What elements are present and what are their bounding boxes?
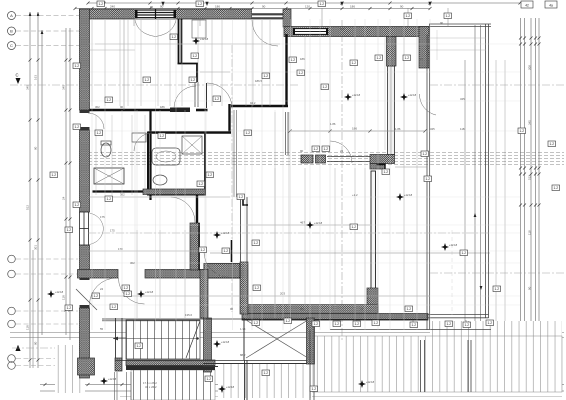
label box 6 <box>73 63 81 69</box>
label box 37 <box>199 247 207 253</box>
wall bottom edge dark <box>242 319 428 321</box>
svg-text:C: C <box>16 73 19 78</box>
terrace interior vertical <box>436 30 438 60</box>
terrace interior hline2 <box>429 49 486 51</box>
svg-text:90: 90 <box>120 105 124 109</box>
extension line v low <box>184 110 186 318</box>
left dim line E <box>69 28 71 340</box>
wall left exterior seg1 <box>80 9 90 110</box>
stair treads upper <box>126 320 200 359</box>
svg-text:345: 345 <box>26 85 30 90</box>
window top-right band <box>293 28 328 35</box>
svg-text:345: 345 <box>430 127 435 131</box>
extension line v <box>403 19 405 330</box>
wall interior h y110a <box>90 109 173 112</box>
wall block corner step <box>377 165 386 171</box>
wall below hall right <box>285 112 287 155</box>
label box 9 <box>65 227 73 233</box>
svg-text:+12.18: +12.18 <box>55 290 64 294</box>
elevation marker <box>306 221 314 229</box>
svg-text:+12.18: +12.18 <box>408 93 417 97</box>
svg-text:175: 175 <box>100 215 105 219</box>
svg-text:118: 118 <box>62 295 66 300</box>
section marker up bottom-left <box>16 345 21 351</box>
label box 52 <box>463 322 471 328</box>
interior vertical thin <box>119 20 121 106</box>
top dim ticks row1 <box>87 2 522 5</box>
svg-text:90: 90 <box>150 5 154 9</box>
wc bottom wall <box>93 190 149 192</box>
interior vertical thin wc <box>111 115 113 195</box>
wall block mid-left <box>301 155 313 163</box>
terrace interior vertical2 <box>451 230 453 315</box>
label box 65 <box>375 55 383 61</box>
wall vertical left-of-room <box>240 262 248 314</box>
terrace decking right <box>312 336 562 392</box>
svg-text:4a: 4a <box>549 4 553 8</box>
svg-text:467: 467 <box>300 221 305 225</box>
door swing right terrace <box>419 94 436 115</box>
svg-text:+1.2: +1.2 <box>352 193 358 197</box>
label box 12 <box>110 304 118 310</box>
label box 49 <box>353 321 361 327</box>
wc toilet <box>101 143 111 157</box>
label box 23 <box>158 133 166 139</box>
extension line v <box>282 19 284 330</box>
grid dash line B <box>16 30 84 32</box>
svg-text:1.2: 1.2 <box>520 129 525 133</box>
label box 59 <box>310 386 318 392</box>
band leader lines <box>315 320 317 323</box>
interior vertical thin <box>169 20 171 106</box>
french window leaf arc2 <box>90 229 104 245</box>
void cross <box>246 320 308 358</box>
svg-text:1.2: 1.2 <box>495 287 500 291</box>
label leader line <box>447 8 449 26</box>
wall top-left exterior <box>80 9 253 19</box>
svg-text:1.2: 1.2 <box>75 64 80 68</box>
label leader line <box>199 8 201 26</box>
right dim line R6 <box>480 25 482 334</box>
svg-text:1.2: 1.2 <box>412 323 417 327</box>
right dim texts <box>528 65 532 290</box>
label box 63 <box>445 321 453 327</box>
svg-text:1.2: 1.2 <box>423 152 428 156</box>
svg-text:C: C <box>10 43 13 48</box>
terrace rail inner <box>426 35 428 331</box>
bath sink2 <box>153 175 167 185</box>
extension line v low <box>159 110 161 318</box>
cupboard top <box>192 20 206 38</box>
svg-text:1.2: 1.2 <box>384 170 389 174</box>
svg-text:540: 540 <box>340 27 345 31</box>
extension line v low <box>136 110 138 318</box>
left dim line C <box>41 30 43 335</box>
svg-text:1.2: 1.2 <box>462 251 467 255</box>
interior vertical thin big room low <box>274 168 276 310</box>
wall interior h y110b <box>196 109 208 112</box>
top-right label 1 <box>521 1 533 8</box>
door threshold dark <box>170 108 190 113</box>
wall interior v x150 <box>149 111 151 200</box>
wall left exterior seg2 <box>80 130 90 212</box>
window door swing R <box>156 20 177 37</box>
svg-text:+12.18: +12.18 <box>200 37 209 41</box>
grid dash line D <box>16 258 78 260</box>
label box 24 <box>206 172 214 178</box>
svg-text:118: 118 <box>528 230 532 235</box>
grid bubble bottom D <box>8 255 16 263</box>
elevation marker <box>400 93 408 101</box>
window mid double line <box>327 156 370 158</box>
interior vertical thin wc <box>131 115 133 195</box>
svg-text:1.2: 1.2 <box>75 203 80 207</box>
svg-text:135.6: 135.6 <box>185 313 192 317</box>
label box 22 <box>170 34 178 40</box>
wall block mid-left2 <box>316 155 326 163</box>
svg-text:+12.18: +12.18 <box>145 290 154 294</box>
wall block mid-right upper <box>370 155 395 164</box>
shower stall wc <box>94 168 124 184</box>
wall flue jog <box>178 63 199 65</box>
svg-text:1.2: 1.2 <box>264 74 269 78</box>
svg-text:1.86: 1.86 <box>330 122 336 126</box>
svg-text:1.2: 1.2 <box>107 98 112 102</box>
interior vertical thin <box>269 20 271 106</box>
wall stair right <box>204 318 212 372</box>
wall top-right exterior <box>284 27 429 37</box>
label box 42 <box>135 343 143 349</box>
svg-text:1.2: 1.2 <box>323 85 328 89</box>
bottom edge line y396 <box>120 396 562 398</box>
door swing band gap1 <box>119 278 145 304</box>
interior vertical thin <box>197 20 199 106</box>
label box 19 <box>213 96 221 102</box>
stair walk line <box>113 338 199 340</box>
svg-text:1.2: 1.2 <box>299 71 304 75</box>
beam dashed line 5 <box>88 164 564 166</box>
section marker C <box>16 78 21 84</box>
svg-text:345: 345 <box>460 97 465 101</box>
wall block mid-right lower <box>370 164 385 170</box>
extension line h <box>89 250 520 252</box>
svg-text:1.2: 1.2 <box>550 142 555 146</box>
label leader line <box>407 8 409 26</box>
elevation marker <box>192 37 200 45</box>
grid bubble bottom I <box>8 362 16 370</box>
svg-text:+12.18: +12.18 <box>366 380 375 384</box>
interior vertical thin <box>245 20 247 106</box>
extension line v <box>416 19 418 330</box>
grid bubble bottom H <box>8 355 16 363</box>
extension line v <box>91 19 93 330</box>
svg-text:302: 302 <box>120 193 125 197</box>
deck under void room <box>218 364 312 398</box>
label box 43 <box>222 248 230 254</box>
interior dim y253 <box>210 252 490 254</box>
svg-text:1.2: 1.2 <box>97 131 102 135</box>
label box 45 <box>252 320 260 326</box>
bath tub <box>152 148 180 165</box>
top dimension line 1 <box>88 2 520 4</box>
extension line v <box>155 19 157 330</box>
svg-text:1.2: 1.2 <box>377 56 382 60</box>
svg-text:1.2: 1.2 <box>320 2 325 6</box>
right dim line R5 <box>538 18 540 345</box>
elevation marker <box>47 290 55 298</box>
extension line v low <box>121 110 123 318</box>
svg-text:1.2: 1.2 <box>312 387 317 391</box>
left dim arrow A top <box>29 12 32 16</box>
interior vertical thin <box>127 20 129 106</box>
svg-text:1.2: 1.2 <box>407 307 412 311</box>
svg-text:118: 118 <box>460 127 465 131</box>
svg-text:1.34: 1.34 <box>240 327 246 331</box>
interior vertical thin <box>261 20 263 106</box>
elevation marker <box>213 231 221 239</box>
label box 62 <box>493 286 501 292</box>
left dim texts B <box>34 75 38 345</box>
stair room divider <box>309 318 311 362</box>
svg-text:186: 186 <box>160 105 165 109</box>
svg-text:1.2: 1.2 <box>239 195 244 199</box>
left dim line A2 <box>32 250 34 368</box>
svg-text:+12.18: +12.18 <box>221 340 230 344</box>
deck joist <box>420 340 422 392</box>
stair treads border <box>126 320 200 359</box>
terrace decking right border <box>312 336 562 392</box>
lower vertical thin <box>136 230 138 318</box>
svg-text:1.2: 1.2 <box>488 321 493 325</box>
interior vertical thin big room low <box>304 168 306 310</box>
window door swing L <box>135 20 156 37</box>
svg-text:512: 512 <box>528 175 532 180</box>
extension line v <box>364 19 366 330</box>
svg-text:+12.18: +12.18 <box>314 221 323 225</box>
label box 15 <box>143 77 151 83</box>
bath outline <box>148 133 205 195</box>
lower vertical thin <box>159 230 161 318</box>
wall corridor v hatch <box>190 223 200 270</box>
door jamb left3 <box>80 277 90 280</box>
svg-text:24: 24 <box>340 149 344 153</box>
section dashdot line <box>10 84 300 86</box>
svg-text:1.2: 1.2 <box>208 173 213 177</box>
extension line v <box>261 19 263 330</box>
interior dim y197 <box>88 196 230 198</box>
topleft dim line y50 <box>90 49 136 51</box>
bottom edge line full2 <box>10 337 564 339</box>
terrace interior hline1 <box>429 37 486 39</box>
svg-text:90: 90 <box>400 5 404 9</box>
svg-text:1.2: 1.2 <box>201 248 206 252</box>
label box 35 <box>237 194 245 200</box>
label box 47 <box>312 321 320 327</box>
label box 4 <box>404 13 412 19</box>
right dim line R2 <box>524 18 526 345</box>
svg-text:163: 163 <box>34 75 38 80</box>
corridor wall pair north <box>233 110 235 197</box>
section dashdot line bottom <box>12 347 90 349</box>
svg-text:24: 24 <box>420 57 424 61</box>
label box 32 <box>421 151 429 157</box>
svg-text:90: 90 <box>300 149 304 153</box>
wall corridor v black <box>196 195 198 223</box>
bottom dim ticks <box>44 383 562 386</box>
wall corridor top jog <box>239 198 249 206</box>
wall under stair dark strip <box>126 366 215 371</box>
door leaf diagonal <box>76 289 97 310</box>
beam dashed line 4 <box>88 161 564 163</box>
label box 34 <box>197 181 205 187</box>
elevation marker <box>137 290 145 298</box>
left dim line B <box>37 12 39 368</box>
svg-text:345: 345 <box>62 85 66 90</box>
terrace decking lower-left <box>131 370 215 400</box>
interior dim y233 <box>88 232 490 234</box>
svg-text:90: 90 <box>34 341 38 345</box>
svg-text:120: 120 <box>305 5 310 9</box>
interior vertical thin big room <box>304 36 306 150</box>
svg-text:+12.18: +12.18 <box>108 377 117 381</box>
svg-text:A: A <box>10 13 13 18</box>
svg-text:186: 186 <box>215 5 220 9</box>
elevation marker <box>441 243 449 251</box>
left dim arrow C top <box>41 30 44 34</box>
door jamb left1 <box>80 110 90 113</box>
label box 17 <box>191 53 199 59</box>
svg-text:1.2: 1.2 <box>126 292 131 296</box>
label box 38 <box>382 169 390 175</box>
label box 7 <box>73 124 81 130</box>
extension line h <box>89 262 520 264</box>
extension line h <box>89 196 520 198</box>
room divider line topleft <box>123 19 125 110</box>
label box 44 <box>253 285 261 291</box>
extension line v low <box>274 110 276 318</box>
terrace rail bottom <box>428 314 489 316</box>
extension line v <box>104 19 106 330</box>
interior vertical thin big room <box>384 36 386 150</box>
door swing corridor low <box>204 252 229 277</box>
interior vertical thin wc <box>95 115 97 195</box>
right dim arrowheads R5 <box>474 213 477 217</box>
right dim ticks <box>519 37 541 342</box>
svg-text:1.2: 1.2 <box>286 319 291 323</box>
wall left exterior seg3 <box>80 245 90 278</box>
svg-text:1.2: 1.2 <box>264 371 269 375</box>
extension line v <box>204 19 206 330</box>
svg-text:512: 512 <box>26 205 30 210</box>
interior vertical thin big room <box>354 36 356 150</box>
extension line v <box>134 19 136 330</box>
interior vertical thin <box>91 20 93 106</box>
right dash line <box>430 272 564 274</box>
wall bottom exterior band lower <box>242 314 428 321</box>
french window leaf arc1 <box>90 213 104 229</box>
wall flue right <box>181 19 183 64</box>
label box 20 <box>289 57 297 63</box>
label box 41 <box>124 291 132 297</box>
interior vertical strip line <box>403 36 405 310</box>
interior vertical thin <box>104 20 106 106</box>
interior dim y131 <box>290 130 425 132</box>
label box 28 <box>312 146 320 152</box>
svg-text:1.2: 1.2 <box>172 35 177 39</box>
svg-text:1.2: 1.2 <box>254 241 259 245</box>
left dim ticks <box>29 59 40 362</box>
french window left frame <box>80 212 89 245</box>
wall hall bottom <box>231 105 288 107</box>
bath shower <box>182 136 202 154</box>
terrace decking right upper <box>430 321 562 336</box>
door leaf corridor <box>206 83 208 108</box>
label box 25 <box>244 130 252 136</box>
label box 64 <box>350 60 358 66</box>
extension line h <box>89 295 520 297</box>
label box 61 <box>65 305 73 311</box>
svg-text:186: 186 <box>350 5 355 9</box>
label leader line <box>321 8 323 26</box>
grid dash line I <box>16 365 78 367</box>
wall hall right <box>285 34 287 107</box>
svg-text:1.2: 1.2 <box>465 323 470 327</box>
svg-text:1.2: 1.2 <box>246 131 251 135</box>
door swing y110 wall <box>174 86 196 108</box>
wall interior v x244 low <box>243 318 245 360</box>
svg-text:90: 90 <box>262 5 266 9</box>
interior vertical thin big room <box>329 36 331 150</box>
wall left exterior seg4 <box>80 308 90 378</box>
svg-text:186: 186 <box>352 127 357 131</box>
wall interior v x229 hall <box>228 104 230 133</box>
svg-text:1.2: 1.2 <box>67 306 72 310</box>
elevation marker <box>213 340 221 348</box>
svg-text:1.2: 1.2 <box>107 197 112 201</box>
wall under stair hatch <box>126 360 215 366</box>
label box 10 <box>73 202 81 208</box>
wall flue left <box>178 19 180 64</box>
label box 27 <box>297 70 305 76</box>
interior vertical thin big room low <box>364 168 366 310</box>
extension line v <box>290 19 292 330</box>
extension line v <box>354 19 356 330</box>
grid dash line C <box>16 45 84 47</box>
wall duct pair <box>194 82 196 107</box>
label box 13 <box>122 285 130 291</box>
grid bubble top C <box>8 42 16 50</box>
right dim line R5 <box>474 25 476 334</box>
label leader line <box>133 8 135 26</box>
wall stub x232 <box>231 240 233 262</box>
label box 8 <box>50 172 58 178</box>
beam dashed line 1 <box>88 152 564 154</box>
svg-text:1.2: 1.2 <box>124 286 129 290</box>
grid bubble top B <box>8 27 16 35</box>
wall stair left hatch-foot <box>115 358 122 371</box>
label box 48 <box>333 321 341 327</box>
svg-text:301: 301 <box>34 245 38 250</box>
svg-text:1.2: 1.2 <box>314 322 319 326</box>
right dim line R3 <box>530 18 532 345</box>
extension line v <box>429 19 431 330</box>
label box 33 <box>424 176 432 182</box>
elevation marker <box>358 380 366 388</box>
svg-text:1.2: 1.2 <box>207 377 212 381</box>
svg-text:90: 90 <box>440 21 444 25</box>
interior vertical thin <box>221 20 223 106</box>
wall stair left lines <box>115 318 117 360</box>
